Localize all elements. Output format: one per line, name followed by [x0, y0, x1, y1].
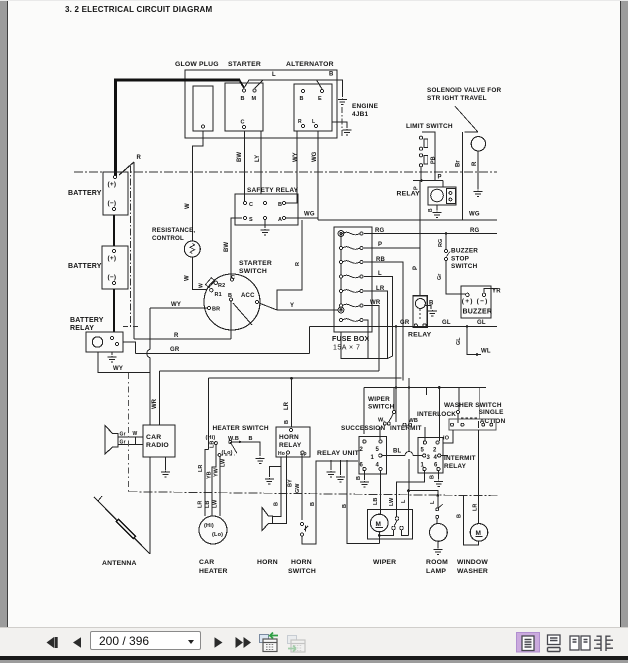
svg-text:W: W — [199, 283, 205, 288]
svg-text:R1: R1 — [215, 292, 222, 298]
svg-text:ACC: ACC — [241, 293, 255, 299]
svg-text:(Hi): (Hi) — [206, 435, 216, 441]
svg-text:LAMP: LAMP — [426, 568, 446, 575]
svg-text:P: P — [414, 186, 420, 190]
svg-text:RELAY: RELAY — [70, 325, 94, 332]
svg-text:Gr: Gr — [120, 432, 126, 438]
svg-text:SOLENOID VALVE FOR: SOLENOID VALVE FOR — [427, 87, 502, 94]
svg-text:RESISTANCE,: RESISTANCE, — [152, 227, 195, 234]
svg-text:C: C — [249, 202, 253, 208]
svg-text:FUSE BOX: FUSE BOX — [332, 336, 370, 343]
svg-text:BATTERY: BATTERY — [70, 317, 104, 324]
svg-text:LW: LW — [221, 458, 227, 467]
svg-text:(−): (−) — [108, 274, 117, 281]
svg-text:5: 5 — [421, 448, 425, 454]
svg-text:(−): (−) — [108, 200, 117, 207]
svg-text:Ho: Ho — [278, 451, 285, 457]
svg-text:P: P — [413, 266, 419, 270]
svg-text:SWITCH: SWITCH — [451, 263, 478, 270]
svg-text:BL: BL — [393, 449, 402, 455]
svg-text:RELAY: RELAY — [397, 191, 421, 198]
svg-text:BUZZER: BUZZER — [451, 248, 478, 255]
svg-text:GR: GR — [400, 320, 410, 326]
svg-text:4: 4 — [376, 463, 380, 469]
svg-text:BATTERY: BATTERY — [68, 263, 102, 270]
svg-text:B: B — [457, 514, 463, 518]
svg-text:SUCCESSION: SUCCESSION — [341, 425, 385, 432]
svg-text:B: B — [284, 420, 290, 424]
svg-text:RG: RG — [470, 228, 480, 234]
svg-text:B: B — [241, 96, 245, 102]
svg-text:LR: LR — [376, 286, 385, 292]
svg-text:WR: WR — [370, 300, 381, 306]
svg-text:(+): (+) — [108, 181, 117, 188]
svg-text:SWITCH: SWITCH — [368, 404, 395, 411]
svg-text:HORN: HORN — [291, 559, 312, 566]
svg-text:R: R — [137, 155, 142, 161]
svg-text:SWITCH: SWITCH — [288, 568, 316, 575]
svg-text:GR: GR — [170, 347, 180, 353]
svg-text:B: B — [228, 293, 232, 299]
svg-text:B: B — [428, 208, 434, 212]
svg-text:L: L — [312, 119, 315, 125]
svg-text:R: R — [174, 333, 179, 339]
svg-text:YR: YR — [492, 289, 501, 295]
svg-text:L: L — [401, 499, 407, 503]
svg-text:R: R — [472, 161, 478, 166]
svg-text:HORN: HORN — [257, 559, 278, 566]
svg-text:LY: LY — [255, 155, 261, 162]
svg-text:B: B — [278, 202, 282, 208]
svg-text:B: B — [249, 436, 253, 442]
svg-text:C: C — [241, 120, 245, 126]
svg-text:WG: WG — [469, 212, 480, 218]
svg-text:LR: LR — [198, 465, 204, 472]
svg-text:Gr: Gr — [120, 440, 126, 446]
svg-text:S: S — [249, 217, 253, 223]
svg-text:1: 1 — [371, 455, 375, 461]
svg-text:RELAY: RELAY — [408, 332, 432, 339]
svg-text:B: B — [342, 504, 348, 508]
svg-text:BY: BY — [288, 479, 294, 487]
svg-text:STARTER: STARTER — [228, 61, 261, 68]
svg-text:(Lo): (Lo) — [212, 532, 223, 538]
svg-text:15A × 7: 15A × 7 — [333, 345, 360, 352]
svg-text:SAFETY RELAY: SAFETY RELAY — [247, 187, 299, 194]
svg-text:L: L — [378, 271, 382, 277]
svg-text:HEATER: HEATER — [199, 568, 228, 575]
svg-text:B: B — [329, 72, 334, 78]
svg-text:CAR: CAR — [146, 434, 161, 441]
svg-text:BW: BW — [224, 242, 230, 252]
svg-text:INTERLOCK: INTERLOCK — [417, 411, 456, 418]
svg-text:Y: Y — [290, 303, 294, 309]
svg-text:CONTROL: CONTROL — [152, 235, 184, 242]
svg-text:GL: GL — [477, 320, 486, 326]
svg-text:IO: IO — [443, 436, 450, 442]
svg-text:(+): (+) — [108, 255, 117, 262]
svg-text:WIPER: WIPER — [368, 396, 390, 403]
svg-text:BATTERY: BATTERY — [68, 190, 102, 197]
svg-text:YB: YB — [207, 471, 213, 479]
svg-text:WG: WG — [304, 212, 315, 218]
svg-text:PB: PB — [431, 156, 437, 164]
svg-text:WASHER SWITCH: WASHER SWITCH — [444, 402, 502, 409]
svg-text:WIPER: WIPER — [373, 559, 396, 566]
svg-text:HORN: HORN — [279, 434, 299, 441]
svg-text:A: A — [278, 217, 282, 223]
svg-text:LB: LB — [205, 501, 211, 508]
svg-text:M: M — [376, 521, 382, 528]
svg-text:B: B — [274, 502, 280, 506]
svg-text:Br: Br — [456, 160, 462, 167]
svg-text:R2: R2 — [218, 283, 225, 289]
svg-text:L: L — [430, 500, 436, 504]
svg-text:P: P — [438, 175, 442, 181]
svg-text:LW: LW — [389, 497, 395, 506]
svg-text:STARTER: STARTER — [239, 260, 272, 267]
svg-text:WY: WY — [113, 366, 123, 372]
svg-text:3: 3 — [427, 455, 431, 461]
svg-text:WASHER: WASHER — [457, 568, 488, 575]
svg-text:4: 4 — [434, 455, 438, 461]
svg-text:LW: LW — [213, 499, 219, 508]
svg-text:ANTENNA: ANTENNA — [102, 560, 137, 567]
svg-text:RELAY: RELAY — [444, 463, 467, 470]
svg-text:YW: YW — [214, 467, 220, 477]
svg-text:L: L — [272, 72, 276, 78]
svg-text:INTERMIT: INTERMIT — [444, 455, 476, 462]
svg-text:STR IGHT TRAVEL: STR IGHT TRAVEL — [427, 95, 487, 102]
svg-text:ALTERNATOR: ALTERNATOR — [286, 61, 334, 68]
svg-text:WY: WY — [171, 302, 181, 308]
svg-text:LR: LR — [284, 401, 290, 410]
svg-text:P: P — [378, 242, 382, 248]
svg-text:WY: WY — [293, 152, 299, 162]
svg-text:RG: RG — [438, 239, 444, 247]
svg-text:RELAY UNIT: RELAY UNIT — [317, 450, 360, 457]
svg-text:HEATER SWITCH: HEATER SWITCH — [213, 425, 269, 432]
svg-text:2: 2 — [433, 448, 437, 454]
svg-text:GLOW PLUG: GLOW PLUG — [175, 61, 219, 68]
svg-text:GL: GL — [442, 320, 451, 326]
svg-text:WR: WR — [152, 398, 158, 409]
svg-text:GL: GL — [456, 337, 462, 345]
svg-text:M: M — [252, 96, 257, 102]
svg-text:6: 6 — [360, 463, 364, 469]
svg-text:BW: BW — [237, 152, 243, 162]
svg-text:BUZZER: BUZZER — [463, 309, 493, 316]
svg-text:4JB1: 4JB1 — [352, 111, 369, 118]
svg-text:LR: LR — [473, 504, 479, 511]
svg-text:WB: WB — [409, 418, 419, 424]
svg-text:W: W — [133, 431, 138, 437]
svg-text:STOP: STOP — [451, 255, 470, 262]
svg-text:SINGLE: SINGLE — [479, 409, 505, 416]
svg-text:WG: WG — [312, 151, 318, 162]
svg-text:R: R — [295, 262, 301, 266]
svg-text:2: 2 — [360, 447, 364, 453]
svg-text:CAR: CAR — [199, 559, 214, 566]
svg-text:W.: W. — [378, 418, 385, 424]
svg-text:B: B — [310, 502, 316, 506]
svg-text:WINDOW: WINDOW — [457, 559, 488, 566]
svg-text:E: E — [318, 96, 322, 102]
svg-text:5: 5 — [376, 447, 380, 453]
svg-text:GW: GW — [295, 483, 301, 493]
svg-text:(Hi): (Hi) — [204, 523, 214, 529]
svg-text:BR: BR — [212, 307, 220, 313]
svg-text:R: R — [298, 119, 302, 125]
svg-text:ROOM: ROOM — [426, 559, 448, 566]
svg-text:LIMIT SWITCH: LIMIT SWITCH — [406, 123, 453, 130]
svg-text:C: C — [231, 275, 235, 281]
svg-text:W: W — [185, 275, 191, 281]
svg-text:RG: RG — [375, 228, 385, 234]
svg-text:SWITCH: SWITCH — [239, 268, 267, 275]
svg-text:W: W — [185, 203, 191, 209]
svg-text:B: B — [430, 475, 436, 479]
svg-text:B: B — [356, 476, 362, 480]
svg-text:B: B — [300, 96, 304, 102]
svg-text:RADIO: RADIO — [146, 442, 169, 449]
svg-text:M: M — [476, 530, 482, 537]
svg-text:Gr: Gr — [437, 273, 443, 280]
svg-text:3. 2 ELECTRICAL CIRCUIT DIA: 3. 2 ELECTRICAL CIRCUIT DIAGRAM — [65, 5, 213, 14]
svg-text:RB: RB — [376, 257, 386, 263]
svg-text:ENGINE: ENGINE — [352, 103, 379, 110]
svg-text:RELAY: RELAY — [279, 442, 302, 449]
svg-text:WL: WL — [481, 349, 491, 355]
svg-text:LR: LR — [198, 501, 204, 508]
svg-text:LB: LB — [373, 498, 379, 505]
svg-text:(+) (−): (+) (−) — [462, 298, 489, 305]
